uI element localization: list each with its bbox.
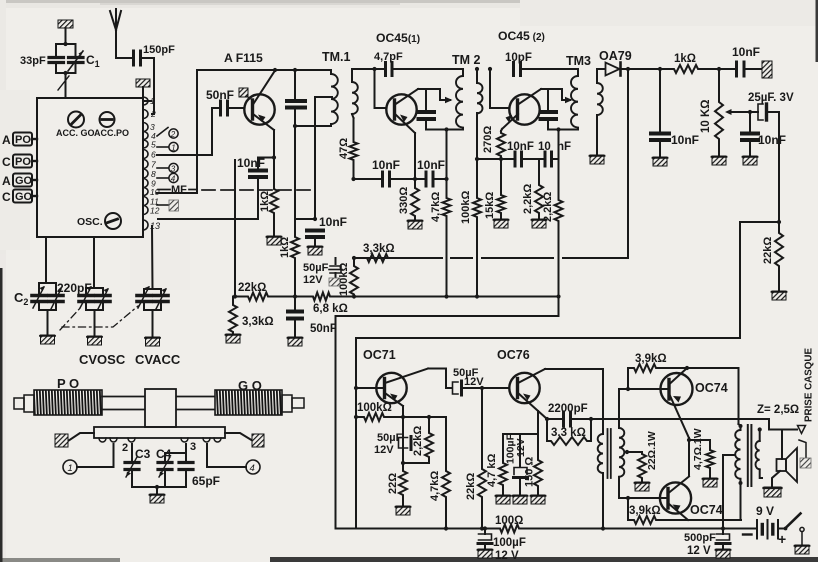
svg-text:25µF. 3V: 25µF. 3V: [748, 92, 794, 104]
ground G26 (100uF): [513, 495, 528, 504]
svg-text:22kΩ: 22kΩ: [238, 282, 266, 294]
TM1 tank left branch + capacitor: [287, 70, 305, 128]
ground G7 (board left): [55, 433, 94, 447]
ground G23 (50nF): [288, 337, 303, 346]
wire OC45(1) emitter column: [414, 133, 416, 186]
svg-text:50µF: 50µF: [377, 432, 403, 444]
capacitor C1 with 33pF (antenna trimmer block): [49, 42, 83, 98]
transistor OC74 (top): [619, 368, 693, 438]
svg-text:10nF: 10nF: [758, 133, 786, 147]
capacitor 100uF 12V (OC76 emitter): [514, 468, 528, 496]
capacitor CVOSC (variable): [79, 286, 110, 336]
svg-text:1kΩ: 1kΩ: [279, 237, 291, 258]
wire TM3 tank bottom: [548, 127, 578, 131]
wire (dashes MF line): [202, 189, 310, 191]
svg-text:12V: 12V: [464, 376, 484, 388]
TM3 secondary coil: [597, 69, 603, 155]
svg-text:6: 6: [151, 150, 156, 160]
svg-text:7: 7: [151, 160, 156, 170]
resistor 2,2k (IF2 b): [555, 130, 563, 224]
svg-text:12V: 12V: [374, 444, 394, 456]
wire OC76 emitter subnet: [503, 411, 538, 467]
svg-text:4: 4: [171, 175, 176, 184]
wire antenna to 150pF: [116, 57, 132, 59]
ground G17 (right-facing hatch): [762, 61, 772, 78]
svg-text:PO: PO: [15, 156, 31, 168]
transistor OC45(1): [386, 89, 418, 133]
capacitor TM2 tank: [419, 89, 435, 130]
svg-text:12: 12: [150, 206, 160, 216]
svg-text:10nF: 10nF: [372, 158, 400, 172]
wire AF115 emitter column: [258, 130, 276, 187]
output transformer center tap wire: [723, 455, 735, 529]
svg-text:PRISE CASQUE: PRISE CASQUE: [804, 348, 815, 423]
svg-text:3,9kΩ: 3,9kΩ: [629, 505, 661, 517]
svg-text:15kΩ: 15kΩ: [484, 192, 496, 219]
ground G32 (jack, light): [800, 458, 811, 468]
capacitor 10nF (detector shunt): [651, 67, 669, 157]
ground G24 (22 ohm): [396, 506, 411, 515]
svg-text:3,3 kΩ: 3,3 kΩ: [551, 427, 586, 439]
wire feedback y419: [545, 417, 797, 430]
ferrite rod left end: [14, 395, 34, 412]
wire TM1 tap: [295, 97, 332, 221]
ferrite rod right end: [282, 395, 304, 412]
svg-text:100kΩ: 100kΩ: [357, 402, 392, 414]
capacitor 50uF 12V (AGC electrolytic): [329, 258, 342, 278]
trimmer ACC.PO: [100, 112, 115, 127]
terminal C PO: [2, 155, 37, 170]
page edge bottom: [270, 557, 818, 562]
block pins 1-13: [143, 97, 148, 230]
svg-text:12 V: 12 V: [495, 550, 519, 562]
battery 9V: [757, 520, 784, 539]
transistor OC74 (bottom): [620, 477, 691, 521]
wire primary bottom to emitter line: [740, 483, 742, 520]
svg-text:A: A: [2, 133, 11, 147]
resistor 150 ohm: [534, 458, 542, 495]
capacitor 10nF (AF115 emitter bypass): [250, 158, 266, 178]
wire y159 line (OC45(2) base bias): [477, 157, 559, 161]
resistor 4,7k (IF1): [443, 196, 451, 218]
svg-text:10nF: 10nF: [507, 141, 534, 153]
svg-text:2200pF: 2200pF: [548, 403, 588, 415]
svg-text:C: C: [2, 155, 11, 169]
ground G13 (15k): [494, 219, 509, 228]
capacitor 2200pF: [564, 412, 571, 426]
svg-text:OC45 (2): OC45 (2): [498, 29, 545, 43]
wire block to C2: [45, 237, 47, 282]
wire AGC drop: [626, 67, 630, 258]
resistor 100k (AGC divider): [350, 258, 358, 297]
resistor 4,7ohm.1W: [689, 440, 714, 478]
wire block to CVOSC: [93, 237, 95, 287]
output transformer primary coil: [735, 424, 742, 485]
capacitor 10nF (to gnd right): [737, 62, 763, 76]
node 1 (circled, ferrite): [63, 460, 77, 474]
svg-text:1: 1: [68, 463, 73, 474]
svg-text:50nF: 50nF: [206, 88, 234, 102]
svg-text:100Ω: 100Ω: [495, 515, 523, 527]
ground G2 (pin1): [136, 79, 151, 101]
wire base drop OC45(2): [490, 69, 509, 108]
svg-text:12V: 12V: [303, 274, 323, 286]
svg-text:150pF: 150pF: [143, 44, 175, 56]
svg-text:22kΩ: 22kΩ: [465, 473, 477, 500]
svg-text:2: 2: [150, 109, 156, 119]
capacitor 500pF 12V: [716, 529, 730, 550]
transistor OC76: [509, 369, 547, 419]
shield hatch AF115: [239, 88, 250, 99]
mounting board: [94, 427, 225, 438]
trimmer ACC.GO: [68, 112, 84, 128]
ground G12 (330): [408, 220, 423, 229]
svg-text:100µF: 100µF: [493, 537, 526, 549]
capacitor 10pF: [488, 63, 578, 76]
wire 150pF to pin2: [152, 58, 154, 114]
resistor 4,7k (OC76 emitter): [499, 461, 507, 495]
ground G10 (1k AF115): [267, 215, 282, 245]
svg-text:150 Ω: 150 Ω: [524, 457, 536, 487]
resistor 47 ohm: [350, 118, 358, 179]
svg-text:5: 5: [151, 140, 156, 150]
svg-text:8: 8: [151, 169, 156, 179]
svg-text:12V: 12V: [515, 438, 527, 457]
ground G6 (CVACC): [145, 337, 160, 346]
switch (on-off): [784, 514, 805, 546]
svg-text:22kΩ: 22kΩ: [762, 237, 774, 264]
ground G3 (pin 11, light): [157, 200, 179, 211]
TM1 primary coil: [295, 70, 338, 126]
wire driver center tap: [625, 450, 642, 454]
svg-text:A F115: A F115: [224, 51, 263, 65]
svg-text:2,2kΩ: 2,2kΩ: [542, 192, 554, 222]
wire center column (emitter/collector junction): [687, 438, 691, 476]
capacitor 10nF (TM1 tap): [307, 231, 323, 247]
oscillator block (module): [37, 98, 143, 237]
svg-text:10nF: 10nF: [732, 45, 760, 59]
svg-text:1kΩ: 1kΩ: [674, 53, 696, 65]
svg-text:OC74: OC74: [690, 503, 723, 517]
wire node4 to board: [207, 444, 246, 467]
svg-text:2,2kΩ: 2,2kΩ: [412, 426, 424, 456]
ground G29 (4,7ohm): [703, 478, 718, 487]
capacitor 50nF (rail A bypass): [288, 297, 302, 338]
svg-text:TM.1: TM.1: [322, 50, 351, 64]
node 2 (circled): [169, 129, 178, 139]
ground G18 (pot): [712, 156, 727, 165]
ground G1 (above C1): [58, 20, 73, 44]
resistor 2,2k (OC71 emitter): [401, 417, 433, 465]
ground G31 (speaker, heavy): [764, 487, 782, 497]
resistor 3,3k: [229, 294, 237, 334]
wire OC74 top collector rail to transformer: [739, 368, 743, 428]
driver transformer core: [608, 429, 611, 478]
svg-text:4: 4: [250, 463, 255, 474]
wire top rail (collector rail AF115): [197, 68, 331, 72]
ground G16 (10nF det): [653, 157, 668, 166]
wire bottom rail (B minus): [336, 526, 758, 530]
ground G9 (C3/C4): [150, 494, 165, 503]
ground G14 (2,2k a): [532, 219, 547, 228]
svg-text:1kΩ: 1kΩ: [259, 191, 271, 212]
ground G33 (500pF): [716, 549, 731, 558]
svg-text:100kΩ: 100kΩ: [460, 191, 472, 224]
resistor 22 ohm: [399, 469, 407, 506]
wire 4,7k to rail A: [444, 218, 448, 299]
svg-text:10 KΩ: 10 KΩ: [700, 99, 712, 133]
ferrite rod bare middle: [102, 397, 215, 410]
wire AGC line (with hops): [352, 256, 628, 260]
svg-text:2: 2: [170, 130, 176, 139]
diode OA79: [597, 63, 672, 76]
resistor 100k (IF): [473, 196, 481, 219]
svg-text:A: A: [2, 174, 11, 188]
ground G22 (3,3k): [226, 334, 241, 343]
wire base drop OC45(1): [375, 69, 387, 108]
svg-text:OC76: OC76: [497, 348, 530, 362]
resistor 22k (AGC right): [775, 222, 783, 291]
svg-text:1: 1: [150, 96, 155, 106]
svg-text:GO: GO: [15, 191, 33, 203]
resistor 100k (OC71 base bias): [356, 413, 446, 421]
svg-text:3,3kΩ: 3,3kΩ: [363, 243, 395, 255]
svg-text:12 V: 12 V: [687, 545, 711, 557]
capacitor C3 (variable): [125, 444, 139, 487]
svg-text:Z= 2,5Ω: Z= 2,5Ω: [757, 404, 799, 416]
resistor 330 ohm: [411, 179, 419, 220]
wire 100k to rail A: [475, 219, 479, 299]
ground G34 (switch): [795, 545, 810, 554]
resistor 3,9k (bottom OC74 bias): [628, 498, 688, 524]
wire 1k no2 to rail A: [294, 260, 296, 297]
capacitor 50uF 12V (coupling to OC76): [453, 381, 510, 395]
svg-text:3,9kΩ: 3,9kΩ: [635, 353, 667, 365]
pin numbers 1-13: [150, 96, 160, 231]
coil PO winding: [34, 390, 102, 415]
resistor 22ohm.1W: [638, 452, 646, 482]
transistor AF115: [244, 71, 275, 131]
TM1 secondary coil: [352, 69, 358, 118]
coil former center block: [145, 389, 176, 427]
ground G30 (22ohm.1W): [635, 482, 650, 491]
wire node1 to board: [77, 444, 114, 467]
node MF (dashed wire): [158, 184, 196, 196]
svg-text:10nF: 10nF: [417, 158, 445, 172]
resistor 2,2k (IF2 a): [535, 159, 543, 219]
wire pin6 to 50nF: [157, 108, 212, 155]
svg-text:TM 2: TM 2: [452, 53, 481, 67]
capacitor 10nF (AF takeoff): [742, 112, 758, 156]
ground G21 (50uF AGC, small): [329, 278, 340, 286]
svg-text:OSC.: OSC.: [77, 216, 103, 228]
svg-text:2: 2: [122, 442, 128, 454]
output transformer core: [748, 425, 752, 486]
node 3 (circled): [157, 163, 178, 173]
wire pin10 to top rail: [157, 70, 197, 193]
resistor 6,8k (rail A series right): [311, 293, 332, 301]
wire audio box top (AF input line): [356, 337, 740, 339]
terminal A GO: [2, 174, 37, 189]
label minus: [743, 533, 752, 535]
TM2 secondary coil: [475, 67, 483, 196]
svg-text:6,8 kΩ: 6,8 kΩ: [313, 303, 348, 315]
svg-text:22Ω: 22Ω: [387, 473, 399, 494]
svg-text:65pF: 65pF: [192, 474, 220, 488]
headphone jack contact: [798, 426, 807, 459]
svg-text:10: 10: [538, 141, 551, 153]
svg-text:OC74: OC74: [695, 381, 728, 395]
resistor 1k (AF115 emitter): [270, 187, 278, 215]
wire 25uF down and jog left: [740, 112, 781, 338]
transistor OC71: [356, 369, 428, 407]
wire 2,2k b to rail A and jog: [556, 223, 560, 316]
board pins: [99, 438, 221, 442]
trimmer OSC: [105, 213, 121, 229]
resistor 15k: [497, 159, 505, 219]
wire OC45(2) collector to TM3 tap: [541, 89, 573, 103]
capacitor 10nF (IF2 b): [545, 152, 552, 166]
ground G19 (10nF AF): [743, 156, 758, 165]
wire speaker return: [772, 471, 780, 487]
svg-text:4,7 kΩ: 4,7 kΩ: [486, 454, 498, 487]
wire bottom emitter line to output transformer: [688, 519, 741, 521]
svg-text:3: 3: [190, 441, 196, 453]
ground G27 (4,7k OC76): [496, 495, 511, 504]
svg-text:+: +: [778, 531, 786, 547]
svg-text:33pF: 33pF: [20, 55, 46, 67]
capacitor 65pF: [179, 453, 193, 487]
ground G25 (150): [531, 495, 546, 504]
svg-text:10pF: 10pF: [505, 52, 532, 64]
driver transformer primary coil: [598, 428, 603, 529]
svg-text:47Ω: 47Ω: [338, 138, 350, 159]
ground G20 (22k right): [772, 291, 787, 300]
node 4 (circled): [157, 173, 178, 183]
output transformer secondary coil: [756, 427, 763, 478]
svg-text:MF: MF: [171, 184, 187, 196]
svg-text:4,7kΩ: 4,7kΩ: [429, 471, 441, 501]
capacitor 10nF (IF1 a): [383, 172, 390, 186]
coil GO winding: [215, 390, 282, 415]
svg-text:100kΩ: 100kΩ: [338, 263, 350, 296]
terminal C GO: [2, 190, 37, 205]
transistor OC45(2): [502, 89, 541, 129]
node 1 (circled): [157, 142, 178, 152]
capacitor 10nF (IF1 b): [426, 172, 433, 186]
wire pin12 to 10nF bottom: [158, 178, 258, 219]
capacitor C2 (variable, 220pF): [32, 283, 63, 335]
resistor 3,9k (top OC74 bias): [628, 364, 739, 389]
svg-text:OC45(1): OC45(1): [376, 31, 420, 45]
svg-text:10nF: 10nF: [319, 215, 347, 229]
svg-text:C: C: [2, 190, 11, 204]
svg-text:OC71: OC71: [363, 348, 396, 362]
antenna: [110, 9, 121, 58]
page edge left: [0, 268, 3, 562]
resistor 33k (AGC): [365, 254, 390, 262]
resistor 22k (OC76 base): [478, 388, 486, 531]
svg-text:ACC. GO: ACC. GO: [56, 128, 95, 138]
capacitor CVACC (variable): [137, 286, 168, 337]
ground G15 (TM3 secondary): [590, 155, 605, 164]
TM3 primary coil: [571, 69, 578, 130]
svg-text:330Ω: 330Ω: [398, 187, 410, 214]
ground G4 (C2): [40, 335, 55, 344]
capacitor 10nF (IF2 a): [515, 152, 522, 166]
resistor 1k (detector): [672, 65, 700, 73]
svg-text:ACC.PO: ACC.PO: [94, 128, 129, 138]
resistor 1k no2: [291, 235, 299, 260]
capacitor TM3 tank: [541, 89, 557, 130]
resistor 100 ohm (rail series): [498, 525, 521, 533]
wire y179 line: [351, 177, 446, 181]
svg-text:GO: GO: [15, 175, 33, 187]
wire OC71 emitter column: [402, 406, 404, 469]
capacitor 4,7pF: [352, 63, 463, 76]
resistor 4,7k (OC71 collector load): [442, 417, 450, 531]
potentiometer 10k (volume): [715, 69, 723, 156]
TM2 primary coil: [456, 69, 463, 130]
wire left column x235: [234, 160, 236, 297]
node 4 (circled, ferrite): [246, 460, 260, 474]
svg-text:22Ω.1W: 22Ω.1W: [646, 431, 658, 470]
wire audio box left edge: [354, 338, 358, 529]
wire line B (B minus): [336, 316, 559, 529]
wire rail A: [235, 294, 559, 298]
loudspeaker: [777, 430, 798, 483]
svg-text:3: 3: [171, 165, 176, 174]
svg-text:PO: PO: [15, 134, 31, 146]
svg-text:4,7kΩ: 4,7kΩ: [430, 192, 442, 222]
svg-text:2,2kΩ: 2,2kΩ: [522, 184, 534, 214]
svg-text:10nF: 10nF: [671, 133, 699, 147]
wire TM2 tank bottom: [426, 127, 463, 131]
ground G11 (10nF TM1): [308, 246, 323, 255]
svg-text:4,7Ω.1W: 4,7Ω.1W: [692, 428, 704, 470]
wire TM2 bottom to 4,7k: [444, 130, 448, 197]
wire OC76 collector: [545, 369, 603, 428]
wire TM1 column / resistor 1k no2: [294, 126, 296, 235]
svg-text:P O: P O: [57, 376, 79, 391]
svg-text:50µF: 50µF: [303, 262, 329, 274]
wire C3/C4 bottoms: [132, 485, 186, 494]
wire (gang dash-dot coupling): [60, 306, 138, 330]
capacitor C4 (variable): [158, 444, 186, 487]
svg-text:CVACC: CVACC: [135, 352, 181, 367]
svg-text:270Ω: 270Ω: [482, 126, 494, 153]
switch at pin 4: [157, 128, 168, 137]
svg-text:500pF: 500pF: [684, 532, 716, 544]
wire detector node: [700, 67, 735, 71]
svg-text:9 V: 9 V: [756, 504, 774, 518]
wire OC45(1) collector to TM2 tap: [418, 89, 453, 103]
wire pin13 down to CVACC: [151, 226, 154, 289]
driver transformer secondary coil: [619, 389, 624, 498]
capacitor 50uF 12V (OC71 emitter bypass): [399, 437, 412, 450]
resistor 3,3k (parallel 2200pF): [547, 419, 591, 445]
capacitor 50nF (AF115 input): [212, 101, 245, 115]
svg-text:10nF: 10nF: [237, 156, 265, 170]
ground G8 (board right): [225, 433, 264, 447]
capacitor 150pF: [134, 51, 155, 65]
resistor 270 ohm (OC45(2) emitter): [497, 129, 505, 159]
capacitor 25uF 3V (electrolytic): [750, 104, 779, 120]
svg-text:C3: C3: [135, 447, 151, 461]
svg-text:4,7pF: 4,7pF: [374, 51, 403, 63]
ground G28 (100uF rail): [478, 549, 493, 558]
terminal A PO: [2, 133, 37, 148]
